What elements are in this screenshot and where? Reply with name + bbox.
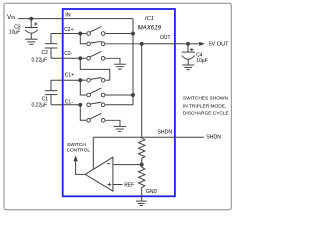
node switch-control arrowhead	[73, 155, 77, 161]
label minus	[107, 163, 111, 165]
svg-text:5V OUT: 5V OUT	[209, 41, 230, 47]
capacitor C2	[50, 34, 52, 44]
wire C2- branch to row5 throw	[80, 58, 110, 80]
wire OUT arrow lead	[188, 43, 199, 45]
ground (C4)	[182, 64, 194, 66]
wire C2+ to row2	[80, 34, 86, 44]
switch S6 C1-/IN (closed)	[87, 103, 91, 107]
wire C1+ pin	[51, 79, 80, 81]
wire bus A (IN bus)	[105, 19, 133, 105]
wire comparator minus input	[113, 164, 142, 166]
node C2-	[78, 56, 82, 60]
svg-text:REF: REF	[124, 182, 134, 188]
switch S1 C2+/IN (open)	[82, 33, 86, 35]
svg-text:0.22µF: 0.22µF	[32, 102, 48, 108]
capacitor C1	[50, 80, 52, 90]
svg-text:SHDN: SHDN	[157, 130, 172, 136]
label plus	[107, 184, 111, 186]
IC IC1 MAX619 body	[63, 9, 175, 196]
node C1-	[78, 103, 82, 107]
node FB junction	[140, 163, 144, 167]
svg-text:IN TRIPLER MODE,: IN TRIPLER MODE,	[183, 103, 226, 109]
svg-text:CONTROL: CONTROL	[67, 148, 91, 154]
switches	[82, 27, 144, 132]
svg-text:SWITCH: SWITCH	[67, 142, 86, 148]
capacitor C4	[187, 44, 189, 52]
ground (C3)	[25, 38, 38, 40]
svg-text:DISCHARGE CYCLE: DISCHARGE CYCLE	[183, 111, 229, 117]
svg-text:MAX619: MAX619	[138, 24, 162, 31]
wire C1- to row8	[80, 105, 86, 121]
svg-text:10µF: 10µF	[196, 58, 208, 64]
ground (bottom)	[136, 201, 147, 205]
node OUT arrowhead	[199, 42, 205, 46]
svg-text:C2: C2	[42, 50, 49, 56]
wire SHDN to comparator	[92, 137, 94, 169]
wire bus B OUT sense	[141, 44, 143, 138]
svg-text:SHDN: SHDN	[206, 135, 221, 141]
node C2+	[78, 32, 82, 36]
resistor R1 (upper divider)	[139, 138, 145, 161]
wire VIN rail	[18, 18, 133, 20]
switch S3 C2-/GND (open)	[82, 57, 86, 59]
svg-text:IN: IN	[65, 13, 70, 19]
wire C2- pin	[51, 57, 80, 59]
switch S4 C1+/C2- (closed)	[82, 79, 86, 81]
svg-text:GND: GND	[146, 189, 158, 195]
svg-text:IC1: IC1	[145, 16, 154, 22]
svg-text:SWITCHES SHOWN: SWITCHES SHOWN	[183, 96, 229, 102]
wire C1+ to row6	[80, 80, 86, 95]
ground (S7)	[113, 125, 126, 127]
node VIN junction	[29, 17, 33, 21]
svg-text:VIN: VIN	[7, 14, 15, 21]
svg-text:C2+: C2+	[64, 27, 73, 33]
switch S5 C1+/IN (open)	[87, 93, 91, 97]
node OUT	[186, 42, 190, 46]
svg-text:C1+: C1+	[65, 73, 74, 79]
svg-text:10µF: 10µF	[9, 30, 20, 36]
svg-text:0.22µF: 0.22µF	[32, 57, 48, 63]
node C1+	[78, 78, 82, 82]
wire OUT	[142, 43, 188, 45]
svg-text:C2-: C2-	[64, 51, 72, 57]
wire SHDN	[93, 136, 204, 138]
ground (S3)	[114, 63, 126, 65]
op-amp comparator U1	[85, 157, 113, 191]
capacitor C3	[30, 19, 32, 27]
border frame	[4, 3, 231, 210]
switch S2 C2+/OUT (closed)	[87, 42, 91, 46]
resistor R2 (lower divider)	[139, 167, 145, 201]
wire comparator plus input to REF	[113, 184, 123, 186]
wire C2+ pin	[51, 33, 80, 35]
svg-text:OUT: OUT	[160, 35, 171, 41]
wire C1- pin	[51, 104, 80, 106]
wire comparator output to switch control	[76, 161, 86, 175]
switch S7 C1-/GND (open)	[87, 119, 91, 123]
